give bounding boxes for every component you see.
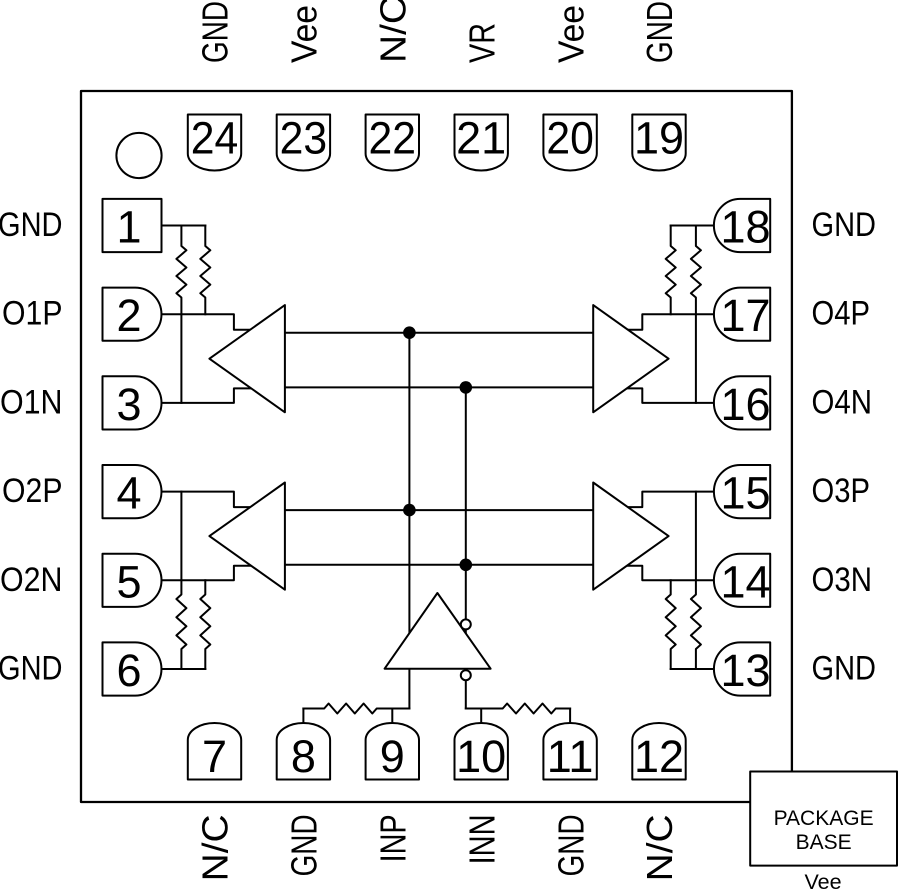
svg-text:GND: GND [550,814,591,876]
svg-text:9: 9 [380,731,405,782]
resistor R6 GND-O4N [691,226,701,403]
svg-text:GND: GND [639,1,680,63]
pin 7 shape [188,723,241,780]
wire pin 3 O1N to amp A1 input [162,388,253,403]
pin 23 shape [277,115,330,171]
svg-text:14: 14 [720,556,770,607]
wire vertical INN bus lower [465,680,467,708]
op-amp A5 (input buffer) [385,593,491,669]
svg-text:N/C: N/C [373,0,414,63]
svg-text:20: 20 [546,113,594,164]
resistor R8 GND-O3P [691,492,701,669]
pin 12 shape [632,723,685,779]
junction dot INP on A2-A3 line [403,504,416,517]
pin 1 indicator circle [116,133,161,178]
junction dot INN on A2-A3 line [460,559,473,572]
svg-text:BASE: BASE [796,831,852,854]
pin 20 shape [543,115,596,171]
wire pin 10 stem [480,709,482,725]
svg-text:11: 11 [547,731,594,782]
pin 24 shape [188,115,241,171]
wire amp A3 output to pin 15 O3P [624,492,714,508]
wire INN jog to pin 10 [466,708,481,710]
op-amp A4 (driver, output O4) [593,305,668,412]
svg-text:GND: GND [284,814,325,876]
pin 10 shape [455,723,508,780]
pin 19 shape [632,115,685,171]
wire amp A3 output to pin 14 O3N [624,566,714,581]
svg-text:18: 18 [720,202,770,253]
wire pin 13 GND stub [671,668,714,670]
wire pin 8 stem [302,709,304,725]
wire bus line A1-A4 noninverting [285,332,593,334]
pin 9 shape [366,723,419,780]
pin 22 shape [366,115,419,171]
svg-text:24: 24 [191,113,239,164]
pin 14 shape [714,554,770,607]
IC package outline [81,91,792,802]
svg-text:Vee: Vee [804,870,841,892]
svg-text:PACKAGE: PACKAGE [774,807,874,830]
wire INP jog to bus [392,708,409,710]
wire amp A4 output to pin 16 O4N [624,388,714,403]
svg-text:10: 10 [456,731,506,782]
svg-text:15: 15 [720,468,770,519]
svg-text:O3P: O3P [812,472,871,510]
pin 4 shape [103,465,162,518]
pin 8 shape [277,723,330,780]
pin 17 shape [714,288,770,341]
svg-text:O2P: O2P [2,472,63,510]
inverting bubble at A5 base [461,670,471,680]
resistor R1 GND-O1N [176,226,186,403]
wire pin 9 stem [391,709,393,725]
svg-text:13: 13 [720,645,770,696]
svg-text:GND: GND [812,206,877,244]
pin 1 shape (square) [103,199,162,252]
svg-text:2: 2 [116,290,141,341]
svg-text:16: 16 [720,379,770,430]
svg-text:1: 1 [116,202,141,253]
svg-text:O4P: O4P [812,295,871,333]
svg-text:VR: VR [461,23,502,63]
svg-text:7: 7 [202,731,227,782]
pin 13 shape [714,642,770,695]
wire vertical INN bus upper [465,387,467,666]
svg-text:5: 5 [116,556,141,607]
resistor R10 INN-GND (pins 10-11) [481,704,570,714]
svg-text:22: 22 [369,113,417,164]
svg-text:GND: GND [195,1,236,63]
svg-text:O2N: O2N [0,561,63,599]
resistor R3 GND-O2N [200,580,210,669]
svg-text:INP: INP [373,814,414,862]
wire amp A4 output to pin 17 O4P [624,314,714,330]
op-amp A1 (driver, output O1) [209,305,285,412]
wire bus line A2-A3 noninverting [285,509,593,511]
junction dot INP on A1-A4 line [403,326,416,339]
wire bus line A1-A4 inverting [285,386,593,388]
junction dot INN on A1-A4 line [460,381,473,394]
pin 3 shape [103,376,162,429]
svg-text:23: 23 [280,113,328,164]
pin 18 shape [714,199,770,252]
pin 5 shape [103,554,162,607]
pin 16 shape [714,376,770,429]
svg-text:N/C: N/C [639,814,680,881]
wire vertical INP bus [408,333,410,709]
pin 6 shape [103,642,162,695]
wire pin 4 O2P to amp A2 input [162,492,253,508]
resistor R7 GND-O3N [666,580,676,669]
wire pin 11 stem [569,709,571,725]
wire pin 2 O1P to amp A1 input [162,314,253,330]
svg-text:3: 3 [116,379,141,430]
svg-text:19: 19 [634,113,684,164]
svg-text:O1P: O1P [2,295,63,333]
resistor R4 GND-O2P [176,492,186,669]
wire pin 5 O2N to amp A2 input [162,566,253,581]
svg-text:GND: GND [0,650,63,688]
svg-text:12: 12 [634,731,684,782]
wire pin 1 GND stub [162,225,206,227]
svg-text:Vee: Vee [550,5,591,63]
resistor R5 GND-O4P [666,226,676,315]
svg-text:O3N: O3N [812,561,873,599]
svg-text:GND: GND [812,650,877,688]
pin 11 shape [543,723,596,779]
svg-text:8: 8 [291,731,316,782]
svg-text:O1N: O1N [0,383,63,421]
svg-text:17: 17 [720,290,770,341]
svg-text:O4N: O4N [812,383,873,421]
resistor R2 GND-O1P [200,226,210,315]
svg-text:21: 21 [456,113,506,164]
pin 2 shape [103,288,162,341]
wire bus line A2-A3 inverting [285,564,593,566]
package base box [750,772,897,866]
wire pin 18 GND stub [671,225,714,227]
pin 21 shape [455,115,508,171]
svg-text:INN: INN [461,814,502,864]
svg-text:N/C: N/C [195,814,236,881]
svg-text:GND: GND [0,206,63,244]
svg-text:4: 4 [116,468,141,519]
svg-text:6: 6 [116,645,141,696]
inverting bubble on A5 slope [461,619,471,629]
resistor R9 GND-INP (pins 8-9) [303,704,392,714]
op-amp A2 (driver, output O2) [209,483,285,590]
op-amp A3 (driver, output O3) [593,483,668,590]
svg-text:Vee: Vee [284,5,325,63]
pin 15 shape [714,465,770,518]
wire pin 6 GND stub [162,668,206,670]
